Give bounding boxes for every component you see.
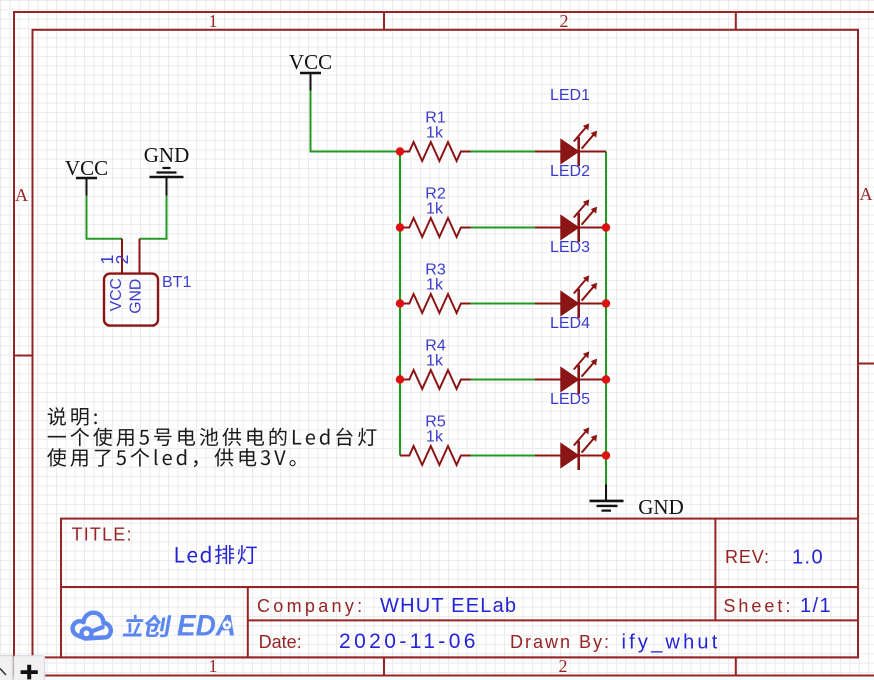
LED LED4 bbox=[535, 315, 606, 394]
svg-text:2: 2 bbox=[559, 656, 568, 676]
wire row 1 resistor to LED bbox=[470, 151, 535, 153]
svg-text:WHUT EELab: WHUT EELab bbox=[380, 595, 517, 617]
svg-text:2020-11-06: 2020-11-06 bbox=[339, 630, 479, 653]
wire GND to BT1 pin2 bbox=[140, 196, 167, 239]
svg-text:LED2: LED2 bbox=[550, 163, 590, 180]
wire row 2 resistor to LED bbox=[470, 227, 535, 229]
power flag VCC (top) bbox=[289, 50, 332, 91]
wire row 3 resistor to LED bbox=[470, 303, 535, 305]
svg-text:GND: GND bbox=[638, 495, 684, 519]
wire row 5 resistor to LED bbox=[470, 455, 535, 457]
svg-text:Company:: Company: bbox=[257, 596, 365, 616]
power flag VCC (left) bbox=[65, 156, 108, 196]
svg-text:GND: GND bbox=[128, 279, 145, 314]
wire right bus bbox=[605, 152, 607, 485]
wire row 4 resistor to LED bbox=[470, 379, 535, 381]
svg-text:1k: 1k bbox=[426, 125, 444, 142]
resistor R1 bbox=[400, 109, 471, 161]
svg-text:REV:: REV: bbox=[725, 547, 770, 567]
wire left bus bbox=[399, 152, 401, 456]
svg-text:LED5: LED5 bbox=[550, 391, 590, 408]
junction node left bus row 3 bbox=[396, 299, 404, 307]
svg-text:LED3: LED3 bbox=[550, 239, 590, 256]
svg-text:VCC: VCC bbox=[289, 50, 332, 74]
note text bbox=[47, 407, 376, 467]
junction node right bus row 4 bbox=[602, 375, 610, 383]
svg-text:GND: GND bbox=[144, 143, 190, 167]
resistor R3 bbox=[400, 261, 471, 313]
svg-text:Drawn By:: Drawn By: bbox=[510, 632, 611, 652]
junction node right bus row 5 bbox=[602, 451, 610, 459]
svg-text:1.0: 1.0 bbox=[792, 547, 824, 569]
LED LED2 bbox=[535, 163, 606, 242]
junction node right bus row 2 bbox=[602, 223, 610, 231]
svg-text:TITLE:: TITLE: bbox=[72, 524, 133, 544]
LED LED3 bbox=[535, 239, 606, 318]
svg-text:A: A bbox=[860, 184, 873, 204]
BT1 pin 2 (GND) bbox=[112, 239, 140, 274]
svg-text:Sheet:: Sheet: bbox=[723, 596, 793, 616]
svg-text:1: 1 bbox=[209, 11, 218, 31]
svg-text:1k: 1k bbox=[426, 353, 444, 370]
junction node left bus row 1 bbox=[396, 147, 404, 155]
svg-text:ify_whut: ify_whut bbox=[622, 632, 721, 654]
svg-text:1: 1 bbox=[209, 656, 218, 676]
svg-text:LED1: LED1 bbox=[550, 87, 590, 104]
svg-text:BT1: BT1 bbox=[162, 274, 191, 291]
LED LED5 bbox=[535, 391, 606, 470]
wire VCC to BT1 pin1 bbox=[87, 196, 123, 239]
resistor R5 bbox=[400, 413, 471, 465]
svg-text:LED4: LED4 bbox=[550, 315, 590, 332]
wire VCC to bus bbox=[311, 91, 401, 152]
svg-text:1k: 1k bbox=[426, 201, 444, 218]
ground flag GND (left) bbox=[144, 143, 190, 196]
BT1 pin 1 (VCC) bbox=[97, 239, 122, 274]
junction node left bus row 4 bbox=[396, 375, 404, 383]
svg-text:VCC: VCC bbox=[108, 278, 125, 311]
svg-text:1k: 1k bbox=[426, 277, 444, 294]
junction node right bus row 3 bbox=[602, 299, 610, 307]
svg-text:2: 2 bbox=[112, 255, 132, 265]
svg-text:Date:: Date: bbox=[259, 632, 302, 652]
resistor R2 bbox=[400, 185, 471, 237]
svg-text:VCC: VCC bbox=[65, 156, 108, 180]
ground GND (bottom) bbox=[590, 485, 684, 520]
LED LED1 bbox=[535, 87, 606, 166]
svg-text:1k: 1k bbox=[426, 429, 444, 446]
resistor R4 bbox=[400, 337, 471, 389]
svg-text:A: A bbox=[15, 185, 28, 205]
battery connector BT1 bbox=[104, 274, 191, 326]
svg-text:2: 2 bbox=[560, 11, 569, 31]
junction node left bus row 2 bbox=[396, 223, 404, 231]
svg-text:1/1: 1/1 bbox=[800, 595, 832, 617]
